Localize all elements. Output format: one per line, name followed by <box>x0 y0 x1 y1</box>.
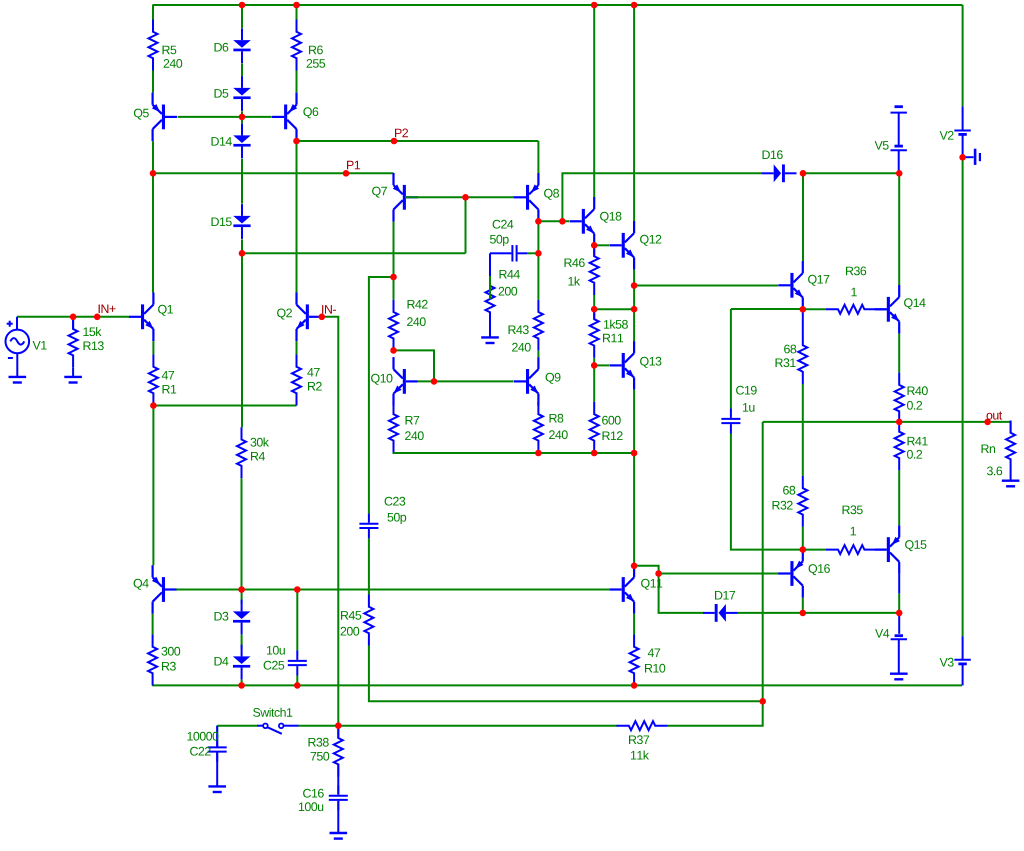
junction Q17 emitter node <box>800 306 807 313</box>
wire <box>152 406 154 566</box>
node out dot <box>984 419 991 426</box>
label Q18 <box>600 212 621 223</box>
wire <box>633 614 635 635</box>
wire <box>393 222 395 277</box>
junction <box>559 218 566 225</box>
lead Q15 collector <box>898 574 900 594</box>
wire Q7-Q8 base node <box>405 196 515 198</box>
wire Q12 collector to rail <box>633 5 635 221</box>
label D16 <box>763 150 783 159</box>
label R45 <box>341 611 361 620</box>
label Q7 <box>372 187 387 198</box>
junction Q13 base node <box>591 362 598 369</box>
label R10 <box>645 664 665 673</box>
junction Q10-Q9 base node <box>431 378 438 385</box>
wire <box>1010 422 1012 433</box>
label 255 <box>307 59 326 68</box>
junction <box>800 610 807 617</box>
wire <box>296 676 298 686</box>
node P1 dot <box>343 170 350 177</box>
resistor R38 <box>334 726 343 777</box>
lead V2 <box>962 134 964 157</box>
junction <box>631 682 638 689</box>
label 240 <box>512 343 531 352</box>
lead R38-C16 <box>337 764 339 794</box>
wire Q16 base wire <box>659 573 779 575</box>
junction <box>800 170 807 177</box>
label out <box>987 412 1003 420</box>
label R8 <box>550 414 564 423</box>
diode D17 <box>703 604 738 622</box>
label 10u <box>267 646 285 655</box>
wire Q8-Q18 base link <box>538 220 569 222</box>
battery V2 <box>954 131 970 135</box>
label R31 <box>776 358 796 367</box>
label R13 <box>84 341 104 350</box>
label 47 <box>162 371 174 380</box>
diode D5 <box>233 76 251 111</box>
junction V4 node <box>896 610 903 617</box>
junction R13 top <box>70 314 77 321</box>
wire <box>634 566 659 574</box>
lead C22 <box>216 753 218 787</box>
wire C19 top <box>731 308 803 310</box>
wire <box>217 725 257 727</box>
wire input <box>17 316 129 318</box>
junction <box>631 2 638 9</box>
wire <box>216 726 218 737</box>
wire node P1 <box>153 172 394 174</box>
wire <box>537 402 539 406</box>
label P2 <box>395 129 408 138</box>
resistor R7 <box>389 402 398 453</box>
resistor R8 <box>534 402 543 453</box>
transistor Q14 <box>875 285 900 334</box>
lead V2 <box>962 106 964 130</box>
label R11 <box>603 334 623 343</box>
lead V4 <box>898 613 900 634</box>
wire <box>633 453 635 565</box>
junction C25 top <box>294 586 301 593</box>
resistor R43 <box>534 300 543 351</box>
label D15 <box>212 218 232 227</box>
wire <box>898 334 900 373</box>
label Rn <box>982 445 996 454</box>
transistor Q10 <box>394 357 419 406</box>
wire <box>241 590 243 604</box>
label C16 <box>303 789 324 798</box>
wire <box>241 680 243 686</box>
label R40 <box>908 386 928 395</box>
wire <box>898 173 900 285</box>
label Q13 <box>640 357 661 368</box>
diode D14 <box>233 124 251 159</box>
junction V2 bottom <box>959 154 966 161</box>
label V2 <box>940 131 954 140</box>
junction Q11 collector node <box>631 563 638 570</box>
label Q9 <box>546 373 561 384</box>
label R35 <box>843 505 863 514</box>
wire <box>393 277 395 300</box>
lead <box>593 245 595 256</box>
wire feedback lower <box>369 646 763 702</box>
junction <box>631 306 638 313</box>
label R1 <box>163 385 177 394</box>
junction <box>462 194 469 201</box>
label 240 <box>164 59 183 68</box>
label Q10 <box>371 374 392 385</box>
wire Q13 base <box>594 364 609 366</box>
resistor R12 <box>590 402 599 453</box>
wire <box>802 527 804 550</box>
wire <box>394 350 435 381</box>
node P2 dot <box>391 138 398 145</box>
wire <box>802 173 804 261</box>
wire <box>537 141 539 173</box>
junction <box>239 2 246 9</box>
diode D15 <box>233 204 251 239</box>
resistor R6 <box>292 20 301 71</box>
transistor Q6 <box>272 93 297 142</box>
ground R13 <box>64 377 82 383</box>
label 750 <box>311 752 330 761</box>
wire to D17 <box>659 574 704 613</box>
wire <box>803 549 826 551</box>
label Q5 <box>134 109 149 120</box>
label 15k <box>83 327 101 336</box>
label 47 <box>648 649 660 658</box>
junction V5 node <box>896 170 903 177</box>
wire <box>241 635 243 649</box>
label R42 <box>408 300 428 309</box>
lead C22 <box>216 726 218 747</box>
label 30k <box>251 438 270 447</box>
lead C24 <box>490 252 503 254</box>
wire <box>152 141 154 173</box>
resistor R1 <box>149 355 158 406</box>
label 0.2 <box>907 450 922 459</box>
label R36 <box>846 267 866 276</box>
label Q8 <box>544 189 559 200</box>
label C19 <box>736 386 757 395</box>
diode D6 <box>233 28 251 63</box>
junction P2 node <box>293 138 300 145</box>
wire Q10-Q9 bases <box>417 380 513 382</box>
label Q2 <box>277 309 292 320</box>
label C24 <box>493 220 514 229</box>
lead <box>877 308 887 310</box>
battery V3 <box>954 660 970 664</box>
lead V4 <box>898 639 900 673</box>
label 47 <box>307 368 319 377</box>
wire <box>898 593 900 613</box>
wire feedback vertical <box>762 422 764 612</box>
junction D3 top <box>238 586 245 593</box>
junction Q17 base node <box>631 282 638 289</box>
lead V3 <box>962 637 964 660</box>
wire <box>803 308 826 310</box>
wire node P2 <box>297 140 539 142</box>
wire <box>241 5 243 28</box>
label 68 <box>783 486 795 495</box>
lead <box>802 309 804 333</box>
label R5 <box>163 46 177 55</box>
label 68 <box>784 345 796 354</box>
label R7 <box>406 416 420 425</box>
ground Rn <box>1002 481 1020 487</box>
label R37 <box>629 735 649 744</box>
ground C22 <box>208 786 226 792</box>
capacitor C24 <box>502 245 527 261</box>
wire <box>593 358 595 365</box>
wire R11 top link <box>594 308 634 310</box>
wire <box>465 197 467 253</box>
wire <box>299 725 618 727</box>
wire <box>296 341 298 354</box>
wire <box>368 538 370 594</box>
resistor R4 <box>237 427 246 478</box>
label V5 <box>875 141 889 150</box>
wire to D16 <box>562 173 762 221</box>
junction output node <box>896 419 903 426</box>
wire <box>242 252 466 254</box>
label Q17 <box>808 275 829 286</box>
lead C16 <box>337 801 339 833</box>
label Q14 <box>904 298 926 309</box>
wire <box>537 222 539 254</box>
transistor Q1 <box>129 293 154 342</box>
label R44 <box>500 270 520 279</box>
transistor Q12 <box>610 221 635 270</box>
label D3 <box>215 612 229 621</box>
wire <box>296 71 298 93</box>
wire <box>802 384 804 476</box>
transistor Q13 <box>610 341 635 390</box>
label R32 <box>773 501 793 510</box>
resistor R11 <box>590 307 599 358</box>
battery V5 <box>891 107 907 151</box>
node P1 junction <box>150 170 157 177</box>
label Q4 <box>134 579 149 590</box>
label D17 <box>715 591 735 600</box>
label Q15 <box>905 540 926 551</box>
label 50p <box>490 235 509 246</box>
transistor Q15 <box>875 525 900 574</box>
label R46 <box>565 258 585 267</box>
wire V+ top rail <box>152 4 962 6</box>
wire Q17 base wire <box>634 285 778 287</box>
junction <box>238 682 245 689</box>
lead <box>877 549 887 551</box>
label 1u <box>743 403 755 412</box>
label 100u <box>299 802 323 811</box>
label 1k <box>568 277 580 286</box>
label IN+ <box>99 305 116 314</box>
wire <box>489 276 491 299</box>
label Q6 <box>303 107 318 118</box>
resistor R10 <box>630 635 639 686</box>
label 1 <box>851 527 856 536</box>
lead R13 <box>72 368 74 377</box>
wire <box>527 252 538 254</box>
wire <box>730 309 732 409</box>
junction <box>591 2 598 9</box>
label C25 <box>264 661 285 670</box>
lead R38 <box>337 726 339 738</box>
capacitor C22 <box>208 737 227 762</box>
junction R1 bottom <box>150 402 157 409</box>
junction <box>591 450 598 457</box>
wire <box>593 365 595 402</box>
label 0.2 <box>907 401 922 410</box>
wire <box>241 111 243 117</box>
wire <box>962 5 964 106</box>
junction Q8 collector node <box>535 218 542 225</box>
transistor Q7 <box>393 173 418 222</box>
resistor R2 <box>292 355 301 406</box>
junction <box>631 450 638 457</box>
junction <box>535 450 542 457</box>
transistor Q17 <box>778 261 803 310</box>
capacitor C25 <box>288 651 307 676</box>
label R43 <box>509 325 529 334</box>
label 240 <box>407 317 426 326</box>
label 200 <box>341 627 360 636</box>
resistor R32 <box>798 476 807 527</box>
resistor R41 <box>895 419 904 470</box>
lead <box>593 309 595 319</box>
label D4 <box>215 657 229 666</box>
wire <box>152 173 154 292</box>
diode D16 <box>762 164 797 182</box>
label 600 <box>602 416 621 425</box>
label D6 <box>215 43 229 52</box>
wire <box>241 478 243 589</box>
wire <box>152 614 154 635</box>
label Q12 <box>640 235 661 246</box>
wire Q18 collector to rail <box>593 5 595 197</box>
lead R13 <box>72 317 74 330</box>
label P1 <box>347 161 360 170</box>
label 10000 <box>187 732 218 741</box>
transistor Q8 <box>514 173 539 222</box>
label 11k <box>631 751 649 760</box>
resistor R44 <box>486 274 495 325</box>
diode D4 <box>233 645 251 680</box>
label 300 <box>162 647 181 656</box>
wire <box>152 71 154 93</box>
label Q11 <box>641 579 662 590</box>
junction <box>390 274 397 281</box>
label C22 <box>190 747 211 756</box>
label D14 <box>212 137 232 146</box>
wire Q5-Q6 bases <box>178 116 272 118</box>
wire C19 bottom <box>731 434 803 550</box>
resistor R40 <box>895 373 904 424</box>
wire emitter degeneration rail <box>394 452 635 454</box>
capacitor C19 <box>721 409 740 434</box>
wire <box>296 590 298 651</box>
wire <box>296 141 298 292</box>
wire <box>633 270 635 342</box>
resistor R37 <box>617 721 668 730</box>
label R41 <box>908 437 928 446</box>
capacitor C16 <box>329 785 348 810</box>
junction C24 right <box>535 250 542 257</box>
wire <box>152 341 154 354</box>
resistor Rn <box>1006 421 1015 472</box>
node IN+ dot <box>94 314 101 321</box>
lead C24-R44 <box>489 253 491 276</box>
junction <box>294 682 301 689</box>
wire Q12 base <box>594 244 609 246</box>
lead R44 <box>489 324 491 337</box>
wire <box>593 295 595 309</box>
wire <box>241 253 243 427</box>
resistor R42 <box>389 300 398 351</box>
switch Switch1 <box>257 724 299 734</box>
junction diode chain bottom <box>239 250 246 257</box>
wire D17 node <box>738 612 900 614</box>
diode D3 <box>233 600 251 635</box>
capacitor flag at V2 <box>964 149 980 165</box>
wire <box>762 612 764 701</box>
label R6 <box>309 46 323 55</box>
resistor R31 <box>798 333 807 384</box>
label R38 <box>309 738 329 747</box>
junction <box>293 2 300 9</box>
lead V3 <box>962 664 964 686</box>
label D5 <box>215 89 229 98</box>
junction Q16 emitter node <box>800 546 807 553</box>
transistor Q4 <box>152 565 177 614</box>
label V3 <box>940 658 954 667</box>
wire IN- feedback <box>321 317 338 726</box>
source V1 <box>5 317 29 377</box>
transistor Q18 <box>570 197 595 246</box>
resistor R46 <box>590 244 599 295</box>
label 1 <box>851 288 856 297</box>
junction switch node <box>335 722 342 729</box>
wire <box>241 117 243 124</box>
wire <box>152 5 154 20</box>
label 200 <box>499 287 518 296</box>
label C23 <box>385 497 406 506</box>
resistor R45 <box>364 595 373 646</box>
transistor Q11 <box>610 565 635 614</box>
wire <box>668 701 763 725</box>
label R2 <box>308 382 322 391</box>
wire <box>763 421 900 423</box>
label R12 <box>603 431 623 440</box>
resistor R3 <box>148 635 157 686</box>
wire <box>537 253 539 299</box>
label 1k58 <box>604 320 628 329</box>
wire tail node <box>153 405 296 407</box>
resistor R36 <box>826 305 877 314</box>
wire <box>962 157 964 636</box>
junction R42 bottom <box>390 347 397 354</box>
label Switch1 <box>253 708 292 717</box>
label 240 <box>549 430 568 439</box>
junction R37/R45 node <box>759 698 766 705</box>
wire <box>537 351 539 357</box>
wire <box>369 277 394 513</box>
resistor R35 <box>826 545 877 554</box>
transistor Q5 <box>152 93 177 142</box>
wire positive drive rail <box>801 172 899 174</box>
wire <box>241 239 243 253</box>
